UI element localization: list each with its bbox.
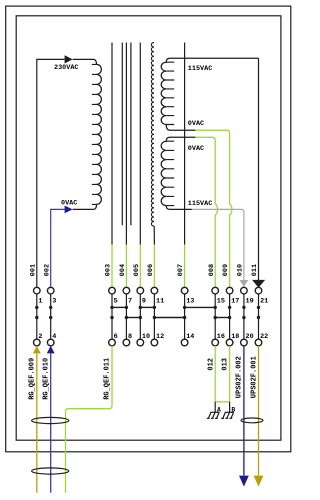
svg-text:17: 17 <box>231 297 239 305</box>
svg-text:007: 007 <box>177 264 185 276</box>
svg-text:005: 005 <box>133 264 141 276</box>
wire 004 stub black <box>125 43 127 245</box>
terminal pair 13/14 <box>181 287 194 346</box>
primary winding tap ticks <box>92 64 97 204</box>
svg-text:10: 10 <box>142 333 150 341</box>
svg-text:20: 20 <box>246 333 254 341</box>
svg-text:008: 008 <box>208 264 216 276</box>
terminal pair 19/20 <box>241 287 254 346</box>
wire 002 blue from 0VAC to terminal 3 <box>51 209 65 287</box>
transformer T1 secondary winding (tapped, scalloped) <box>151 43 154 227</box>
svg-text:B: B <box>231 406 235 413</box>
arrow outgoing UPS02F.001 (dark-yellow, down) <box>254 476 264 487</box>
svg-text:115VAC: 115VAC <box>188 65 212 73</box>
terminal bridge 15-17 (lower) <box>215 317 229 319</box>
ground symbol B (chassis earth) <box>221 402 234 419</box>
svg-text:12: 12 <box>156 333 164 341</box>
wire 006 stub black below scallop <box>153 226 155 244</box>
svg-text:115VAC: 115VAC <box>188 200 212 208</box>
wire RG_QEF.011 green from terminal 6 <box>66 346 113 493</box>
wire 009 green from upper 0VAC to terminal 17 <box>195 130 232 287</box>
wire UPS02F.002 navy from terminal 20 <box>243 346 245 476</box>
secondary coil lower tap ticks <box>166 141 174 205</box>
arrow incoming terminal 2 (yellow, up) <box>33 346 41 354</box>
terminal pair 11/12 <box>151 287 164 346</box>
gray stub to circle 19 <box>243 284 245 287</box>
terminal pair 21/22 <box>255 287 268 346</box>
svg-text:003: 003 <box>105 264 113 276</box>
arrow 0VAC primary return (blue, right-pointing) <box>65 206 73 214</box>
svg-text:RG_QEF.011: RG_QEF.011 <box>104 358 112 400</box>
wire 003 green segment to terminal <box>111 245 113 288</box>
transformer core line left <box>121 43 123 226</box>
wire UPS02F.001 dark-yellow from terminal 22 <box>258 346 260 476</box>
terminal pair 17/18 <box>226 287 239 346</box>
svg-text:8: 8 <box>128 333 132 341</box>
wire 003 stub black <box>111 43 113 245</box>
svg-text:UPS02F.002: UPS02F.002 <box>236 356 244 398</box>
inner border frame <box>16 16 281 440</box>
arrow outgoing UPS02F.002 (navy, down) <box>239 476 249 487</box>
wire 004 green segment to terminal <box>125 245 127 288</box>
terminal bridge 7-9 (lower) <box>126 317 140 319</box>
arrow incoming at terminal 19 (gray, down) <box>239 280 248 287</box>
svg-text:5: 5 <box>114 297 118 305</box>
wire 010 gray from 115VAC bottom to terminal 19 <box>192 209 244 280</box>
svg-text:19: 19 <box>246 297 254 305</box>
svg-text:230VAC: 230VAC <box>54 64 78 72</box>
svg-text:011: 011 <box>251 264 259 276</box>
svg-text:15: 15 <box>217 297 225 305</box>
terminal pair 1/2 <box>34 287 43 346</box>
svg-text:18: 18 <box>231 333 239 341</box>
svg-text:2: 2 <box>38 333 42 341</box>
cable marker RG_QEF (lower ellipse) <box>32 468 69 474</box>
terminal pair 15/16 <box>212 287 225 346</box>
wire RG_QEF.009 yellow <box>36 353 38 492</box>
arrow 230VAC feed (right-pointing) <box>65 55 73 63</box>
terminal bridge 11-13 (lower) <box>154 317 184 319</box>
terminal pair 3/4 <box>47 287 56 346</box>
svg-text:11: 11 <box>156 297 164 305</box>
arrow incoming at terminal 21 (large black, down) <box>252 280 265 288</box>
svg-text:001: 001 <box>29 264 37 276</box>
cable marker UPS02F (ellipse) <box>241 418 263 423</box>
svg-text:3: 3 <box>52 297 56 305</box>
svg-text:006: 006 <box>147 264 155 276</box>
svg-text:UPS02F.001: UPS02F.001 <box>250 356 258 398</box>
svg-text:0VAC: 0VAC <box>188 145 204 153</box>
svg-text:RG_QEF.010: RG_QEF.010 <box>42 358 50 400</box>
svg-text:013: 013 <box>222 358 230 371</box>
svg-text:22: 22 <box>260 333 268 341</box>
svg-text:010: 010 <box>237 264 245 276</box>
green bond between 012 and 013 <box>215 401 229 403</box>
wire 001 from terminal 1 up to primary top <box>37 59 65 287</box>
cable marker RG_QEF (upper ellipse) <box>32 417 69 423</box>
terminal bridge 13-15 (upper) <box>185 306 216 308</box>
arrow incoming terminal 4 (blue, up) <box>47 346 55 354</box>
wire 008 green from lower 0VAC to terminal 15 <box>195 137 217 287</box>
svg-text:16: 16 <box>217 333 225 341</box>
transformer T1 primary winding 230VAC <box>73 59 102 209</box>
transformer T1 secondary coil lower 0VAC/115VAC <box>161 137 195 209</box>
wire 013 green from terminal 18 <box>229 346 231 402</box>
terminal pair 7/8 <box>123 287 132 346</box>
svg-text:1: 1 <box>38 297 42 305</box>
svg-text:A: A <box>217 406 221 413</box>
svg-text:002: 002 <box>43 264 51 276</box>
svg-text:0VAC: 0VAC <box>61 199 77 207</box>
wire 007 stub black <box>184 43 186 245</box>
svg-text:009: 009 <box>222 264 230 276</box>
svg-text:7: 7 <box>128 297 132 305</box>
wire 006 green segment to terminal <box>153 245 155 288</box>
svg-text:6: 6 <box>114 333 118 341</box>
outer border frame <box>6 6 291 452</box>
svg-text:012: 012 <box>207 358 215 371</box>
secondary coil upper tap ticks <box>166 62 174 124</box>
transformer core line right <box>130 43 132 226</box>
svg-text:9: 9 <box>142 297 146 305</box>
terminal bridge 5-7 (upper) <box>112 306 126 308</box>
wire 012 green from terminal 16 <box>214 346 216 402</box>
wire 007 green segment to terminal <box>184 245 186 288</box>
svg-text:13: 13 <box>186 297 194 305</box>
wire segment arrow to primary coil <box>73 58 94 60</box>
svg-text:RG_QEF.009: RG_QEF.009 <box>28 358 36 400</box>
wire 011 black from 115VAC top to terminal 21 <box>258 58 260 280</box>
terminal bridge 9-11 (upper) <box>140 306 154 308</box>
svg-text:0VAC: 0VAC <box>188 120 204 128</box>
svg-text:004: 004 <box>119 264 127 276</box>
svg-text:14: 14 <box>186 333 194 341</box>
wire 005 stub black <box>139 43 141 245</box>
ground symbol A (chassis earth) <box>207 402 220 419</box>
wire 005 green segment to terminal <box>139 245 141 288</box>
transformer T1 secondary coil upper 115VAC/0VAC <box>161 58 258 130</box>
svg-text:21: 21 <box>260 297 268 305</box>
terminal pair 9/10 <box>137 287 150 346</box>
svg-text:4: 4 <box>52 333 56 341</box>
wire RG_QEF.010 blue <box>50 353 52 492</box>
terminal pair 5/6 <box>109 287 118 346</box>
